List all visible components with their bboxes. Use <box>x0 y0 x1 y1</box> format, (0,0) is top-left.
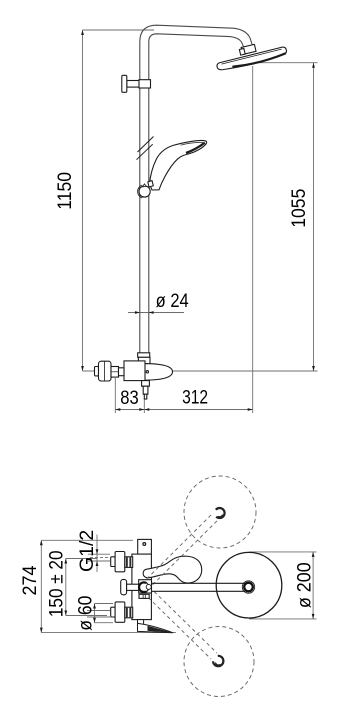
svg-text:ø 60: ø 60 <box>74 596 96 631</box>
svg-text:1150: 1150 <box>53 172 75 210</box>
svg-text:274: 274 <box>18 566 40 596</box>
svg-text:83: 83 <box>120 387 138 409</box>
svg-text:150 ± 20: 150 ± 20 <box>44 550 66 617</box>
svg-text:1055: 1055 <box>287 189 309 228</box>
svg-text:312: 312 <box>182 386 208 408</box>
svg-text:ø 200: ø 200 <box>293 562 315 608</box>
svg-text:G1/2: G1/2 <box>76 530 98 572</box>
svg-text:ø 24: ø 24 <box>156 290 189 312</box>
